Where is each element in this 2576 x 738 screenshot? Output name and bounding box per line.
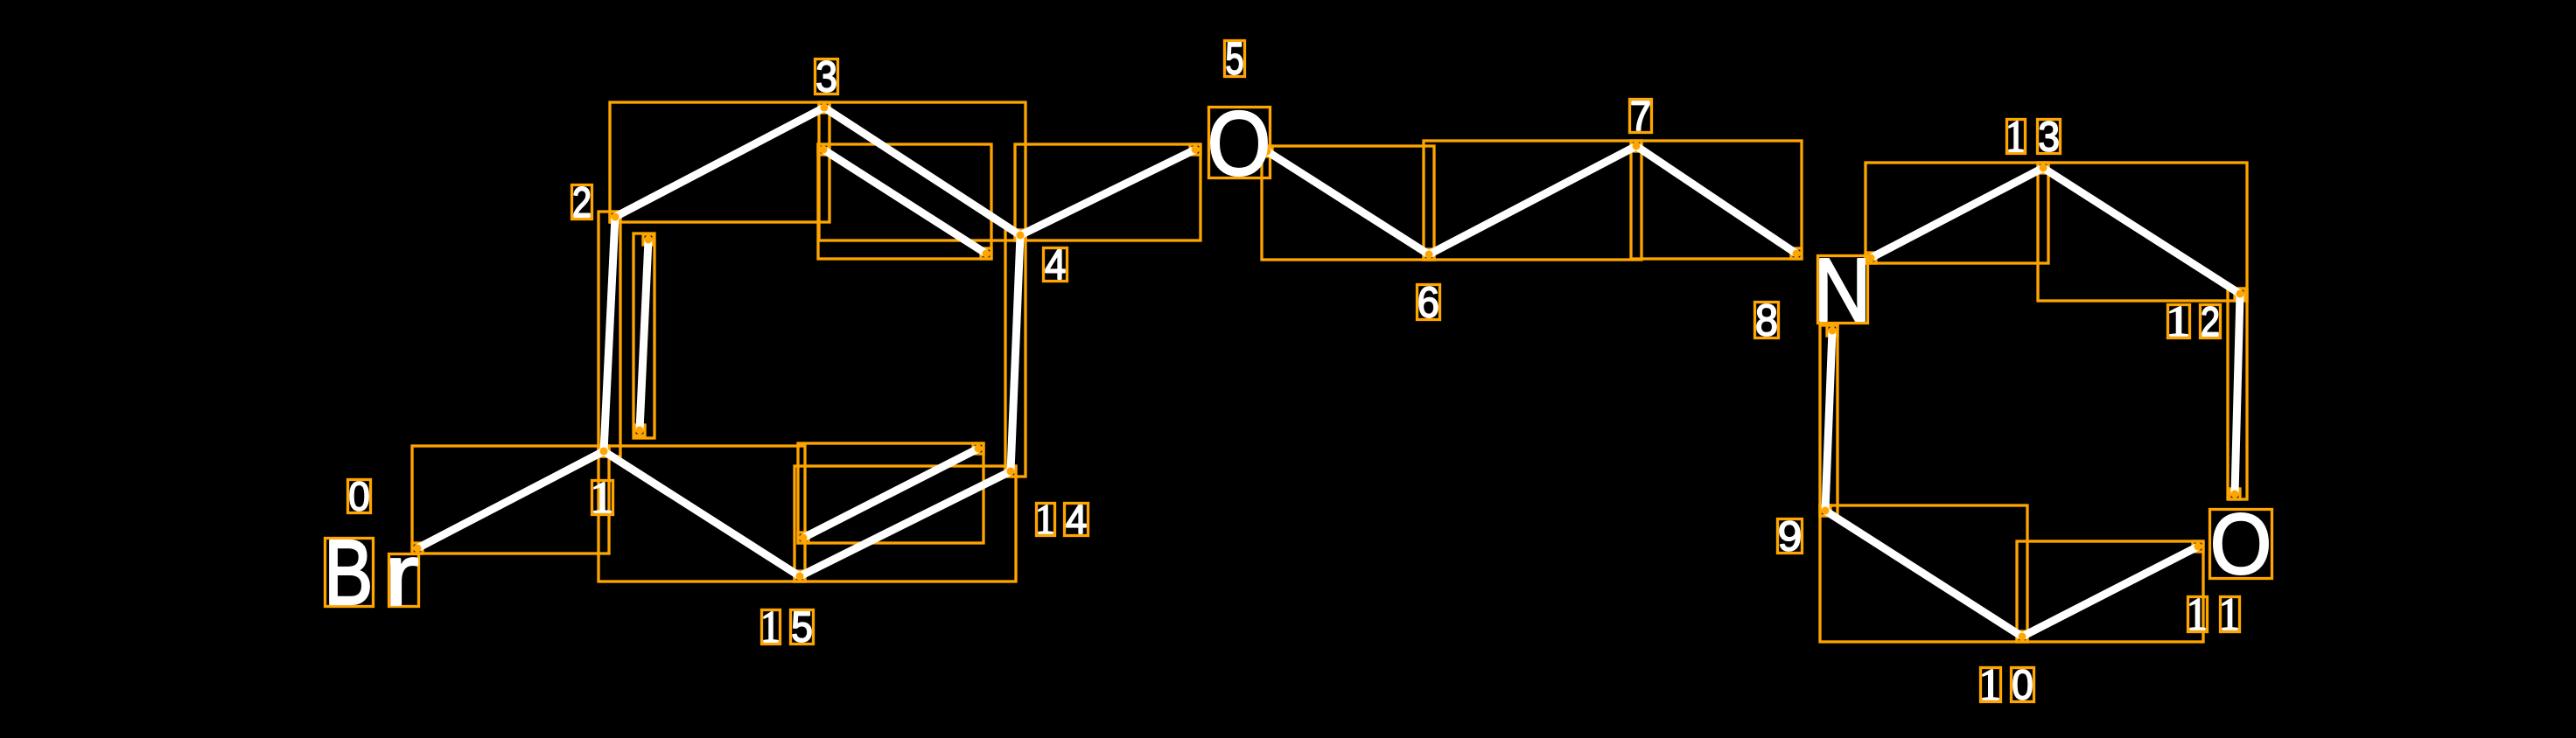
endpoint box at 690,516	[598, 446, 609, 456]
bond C12-O11	[2235, 294, 2240, 494]
endpoint box at 1366,171	[1190, 144, 1200, 155]
bond C4-O5 end at O5 dot	[1192, 146, 1200, 154]
bond C7-N8 end at N8 dot	[1793, 250, 1801, 258]
bbox bond C1-C15	[598, 446, 805, 581]
inner line C14-C15 left end dot	[800, 534, 808, 542]
bond C1-C2	[604, 217, 615, 451]
endpoint box at 703,248	[610, 212, 620, 222]
index label 2	[572, 185, 592, 219]
index label 7	[1630, 100, 1652, 133]
endpoint box at 741,274	[643, 234, 654, 245]
index label 15	[762, 610, 814, 644]
bond O5-C6	[1267, 151, 1429, 254]
bbox bond C4-C14	[1005, 230, 1025, 477]
node C1 junction dot	[600, 448, 608, 456]
bond C14-C15	[800, 471, 1011, 576]
bond N8-C13	[1871, 168, 2043, 258]
bond C9-C10	[1825, 511, 2022, 637]
endpoint box at 2554,565	[2229, 489, 2240, 499]
node C3 junction dot	[821, 104, 829, 112]
double-bond inner line C3-C4	[823, 150, 986, 254]
bond C2-C3	[615, 108, 824, 217]
endpoint box at 1633,291	[1424, 249, 1434, 260]
node C14 junction dot	[1007, 468, 1015, 476]
bond N8-C13 end at N8 dot	[1867, 254, 1875, 262]
endpoint box at 1870,167	[1631, 141, 1641, 151]
bbox letter B of atom Br0	[325, 539, 374, 607]
bond C12-O11 end at O11 dot	[2231, 491, 2239, 498]
endpoint box at 914,659	[794, 571, 805, 581]
bond C4-C14	[1011, 235, 1020, 471]
index label 6	[1417, 285, 1440, 320]
index label 10	[1981, 668, 2034, 702]
endpoint box at 2512,625	[2193, 541, 2203, 552]
bond C7-N8	[1636, 146, 1796, 254]
bond O11-C10	[2022, 547, 2198, 637]
endpoint box at 1127,290	[981, 248, 991, 259]
endpoint box at 1118,513	[973, 443, 983, 454]
endpoint box at 941,171	[818, 144, 829, 155]
bond C1-C15	[604, 451, 800, 576]
index label 9	[1778, 519, 1802, 553]
bond C6-C7	[1429, 146, 1636, 254]
bbox double-bond inner line C3-C4	[818, 144, 991, 259]
node Br0 bond end dot	[414, 545, 422, 553]
index label 11	[2188, 597, 2240, 632]
bond Br0-C1	[417, 451, 604, 548]
node C10 junction dot	[2019, 633, 2026, 641]
index label 0	[348, 480, 371, 513]
bbox bond C13-C12	[2038, 163, 2247, 301]
bbox bond C4-O5	[1015, 144, 1200, 240]
node C13 junction dot	[2040, 164, 2047, 172]
inner line C1-C2 bottom end dot	[636, 427, 644, 435]
bbox bond N8-C9	[1820, 325, 1837, 516]
node C15 junction dot	[796, 573, 804, 581]
bbox bond C3-C4	[819, 102, 1025, 240]
endpoint box at 942,123	[819, 102, 829, 113]
bbox atom O11	[2210, 510, 2272, 579]
index label 5	[1225, 41, 1245, 77]
node C2 junction dot	[612, 213, 619, 221]
endpoint box at 1155,539	[1005, 466, 1016, 477]
bbox atom N8	[1818, 256, 1868, 324]
bbox bond Br0-C1	[412, 446, 609, 553]
atom Br0 letter r	[391, 558, 417, 605]
atom O5 letter	[1211, 111, 1267, 176]
node C12 junction dot	[2236, 290, 2244, 298]
endpoint box at 2335,192	[2038, 163, 2048, 173]
endpoint box at 2311,728	[2017, 631, 2027, 642]
bbox bond C9-C10	[1820, 505, 2027, 642]
endpoint box at 731,492	[634, 425, 645, 435]
bbox bond O5-C6	[1262, 146, 1434, 260]
endpoint box at 1448,173	[1262, 146, 1272, 157]
inner line C14-C15 right end dot	[975, 445, 983, 453]
endpoint box at 2138,295	[1865, 253, 1876, 263]
bbox double-bond inner line C14-C15	[798, 443, 983, 543]
endpoint box at 1166,269	[1015, 230, 1025, 240]
double-bond inner line C1-C2	[640, 240, 648, 430]
bbox bond C6-C7	[1424, 141, 1641, 260]
bbox double-bond inner line C1-C2	[633, 233, 654, 438]
index label 4	[1044, 248, 1067, 282]
endpoint box at 2086,584	[1820, 505, 1830, 516]
bond O5-C6 end at O5 dot	[1263, 148, 1271, 156]
node C7 junction dot	[1633, 143, 1641, 150]
endpoint box at 477,627	[412, 543, 423, 553]
bond C3-C4	[824, 108, 1020, 235]
endpoint box at 2560,336	[2235, 289, 2245, 299]
index label 8	[1755, 303, 1779, 338]
node C9 junction dot	[1822, 507, 1830, 515]
bbox bond C7-N8	[1631, 141, 1802, 259]
bond N8-C9 end at N8 dot	[1829, 327, 1837, 335]
bbox bond N8-C13	[1865, 163, 2048, 263]
bond O11-C10 end at O11 dot	[2194, 543, 2202, 551]
node C4 junction dot	[1017, 232, 1025, 240]
inner line C3-C4 bottom end dot	[983, 250, 990, 258]
inner line C1-C2 top end dot	[645, 236, 653, 244]
bbox bond C12-O11	[2228, 289, 2247, 499]
bond C4-O5	[1020, 150, 1195, 235]
bbox bond O11-C10	[2017, 541, 2203, 642]
index label 12	[2168, 305, 2221, 338]
index label 3	[815, 59, 838, 94]
index label 1	[592, 481, 613, 515]
double-bond inner line C14-C15	[803, 449, 978, 538]
bbox bond C2-C3	[610, 102, 829, 222]
bond N8-C9	[1825, 331, 1832, 511]
endpoint box at 918,615	[798, 533, 808, 543]
node C6 junction dot	[1425, 251, 1433, 259]
bond C13-C12	[2043, 168, 2240, 294]
index label 13	[2007, 120, 2061, 154]
endpoint box at 2094,378	[1827, 325, 1837, 336]
inner line C3-C4 top end dot	[820, 146, 828, 154]
index label 14	[1037, 504, 1088, 536]
bbox letter r of atom Br0	[389, 554, 419, 607]
bbox bond C14-C15	[794, 466, 1016, 581]
atom Br0 letter B	[330, 540, 369, 604]
atom O11 letter	[2214, 513, 2268, 574]
bbox bond C1-C2	[598, 212, 620, 456]
bbox atom O5	[1209, 108, 1270, 178]
atom N8 letter	[1820, 259, 1865, 321]
endpoint box at 2053,290	[1791, 248, 1802, 259]
